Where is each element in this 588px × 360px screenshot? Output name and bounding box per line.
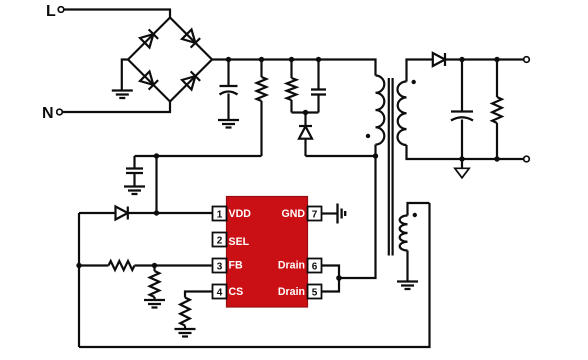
- resistor R5 (FB lower): [150, 266, 160, 300]
- wire VDD junction drop: [155, 156, 157, 213]
- svg-text:GND: GND: [281, 208, 305, 220]
- node load resistor bottom: [494, 156, 499, 161]
- pin 7 box: [308, 207, 322, 221]
- svg-text:L: L: [46, 3, 56, 20]
- resistor R3 (load): [492, 60, 502, 160]
- node load resistor top: [494, 57, 499, 62]
- resistor R4 (FB upper, horizontal): [79, 261, 212, 270]
- node bulk cap tap: [226, 57, 231, 62]
- resistor R2 (clamp): [287, 60, 297, 113]
- node VDD top junction: [154, 153, 159, 158]
- primary polarity dot: [366, 134, 370, 138]
- node clamp R tap: [289, 57, 294, 62]
- node output cap top: [459, 57, 464, 62]
- wire pin 6 to drain node: [322, 266, 340, 279]
- ground (FB divider): [144, 300, 165, 308]
- svg-text:Drain: Drain: [278, 260, 305, 272]
- wire CS pin to resistor: [185, 292, 213, 298]
- output terminal -: [524, 156, 530, 162]
- pin 6 box: [308, 259, 322, 273]
- diode D6 (output rectifier): [433, 53, 524, 66]
- wire pin 5 to drain node: [322, 278, 340, 292]
- earth ground (output): [455, 159, 469, 178]
- ground (pin 7, rotated): [338, 204, 346, 224]
- svg-text:SEL: SEL: [229, 236, 250, 248]
- resistor R6 (CS): [180, 298, 190, 329]
- wire secondary bottom rail: [407, 145, 524, 159]
- wire FB rail: [78, 213, 80, 347]
- node FB divider junction: [152, 263, 157, 268]
- svg-text:VDD: VDD: [229, 208, 252, 220]
- svg-text:5: 5: [312, 288, 318, 299]
- svg-text:7: 7: [312, 210, 318, 221]
- svg-text:4: 4: [217, 288, 223, 299]
- diode D5 (clamp, cathode up): [299, 113, 312, 157]
- svg-text:6: 6: [312, 262, 318, 273]
- svg-text:N: N: [42, 105, 54, 122]
- ground (bulk cap): [218, 120, 239, 128]
- ground (VDD cap): [124, 187, 145, 195]
- ground (bridge negative): [112, 91, 133, 99]
- ground (aux winding): [397, 282, 418, 290]
- pin 4 box: [213, 285, 227, 299]
- svg-text:2: 2: [217, 236, 223, 247]
- node clamp C tap: [316, 57, 321, 62]
- node startup resistor tap: [259, 57, 264, 62]
- wire startup to VDD node: [135, 155, 262, 157]
- wire bridge negative to ground: [122, 60, 128, 91]
- wire primary bottom to drain: [339, 145, 376, 279]
- transformer T1 primary winding: [376, 76, 385, 145]
- pin 2 box: [213, 233, 227, 247]
- node VDD pin junction: [154, 210, 159, 215]
- node primary-bottom / clamp junction: [373, 153, 378, 158]
- pin 3 box: [213, 259, 227, 273]
- op IC U1 body: [227, 197, 308, 308]
- bridge diode D3 (left-bottom edge): [140, 72, 158, 90]
- diode D7 (VDD feed): [79, 207, 213, 220]
- wire clamp RC bottom join: [292, 111, 319, 113]
- capacitor C2 (VDD): [126, 156, 143, 186]
- svg-text:Drain: Drain: [278, 286, 305, 298]
- wire L to bridge top: [64, 10, 170, 18]
- bridge diode D2 (top-right edge): [182, 30, 200, 48]
- bridge diode D1 (left-top edge): [140, 29, 158, 47]
- wire HV bus: [212, 60, 376, 76]
- aux polarity dot: [413, 213, 417, 217]
- node FB rail junction: [76, 263, 81, 268]
- output terminal +: [524, 57, 530, 63]
- wire aux bottom to ground: [406, 251, 408, 282]
- secondary polarity dot: [412, 80, 416, 84]
- capacitor C1 (bulk, electrolytic): [220, 60, 238, 120]
- svg-text:CS: CS: [229, 286, 244, 298]
- wire bias return rail: [79, 203, 430, 347]
- svg-text:3: 3: [217, 262, 223, 273]
- transformer aux winding: [400, 216, 408, 251]
- node drain junction: [336, 275, 342, 281]
- bridge diode D4 (bottom-right edge): [182, 71, 200, 89]
- wire N to bridge bottom: [62, 102, 170, 113]
- transformer T1 secondary winding: [397, 82, 406, 146]
- node output cap bottom: [459, 156, 464, 161]
- wire GND pin 7: [322, 212, 338, 214]
- transformer core: [389, 78, 393, 256]
- wire aux top: [408, 203, 430, 216]
- capacitor C4 (output, electrolytic): [451, 60, 473, 160]
- pin 5 box: [308, 285, 322, 299]
- resistor R1 (startup): [257, 60, 267, 157]
- wire secondary top: [407, 60, 433, 82]
- ground (CS resistor): [175, 329, 196, 337]
- terminal N: [42, 105, 62, 122]
- terminal L: [46, 3, 64, 20]
- wire clamp to primary bottom: [306, 155, 376, 157]
- node clamp diode junction: [303, 110, 308, 115]
- capacitor C3 (clamp): [311, 60, 326, 113]
- pin 1 box: [213, 207, 227, 221]
- bridge rectifier BR1 diamond: [128, 18, 212, 102]
- svg-text:FB: FB: [229, 260, 243, 272]
- svg-text:1: 1: [217, 210, 223, 221]
